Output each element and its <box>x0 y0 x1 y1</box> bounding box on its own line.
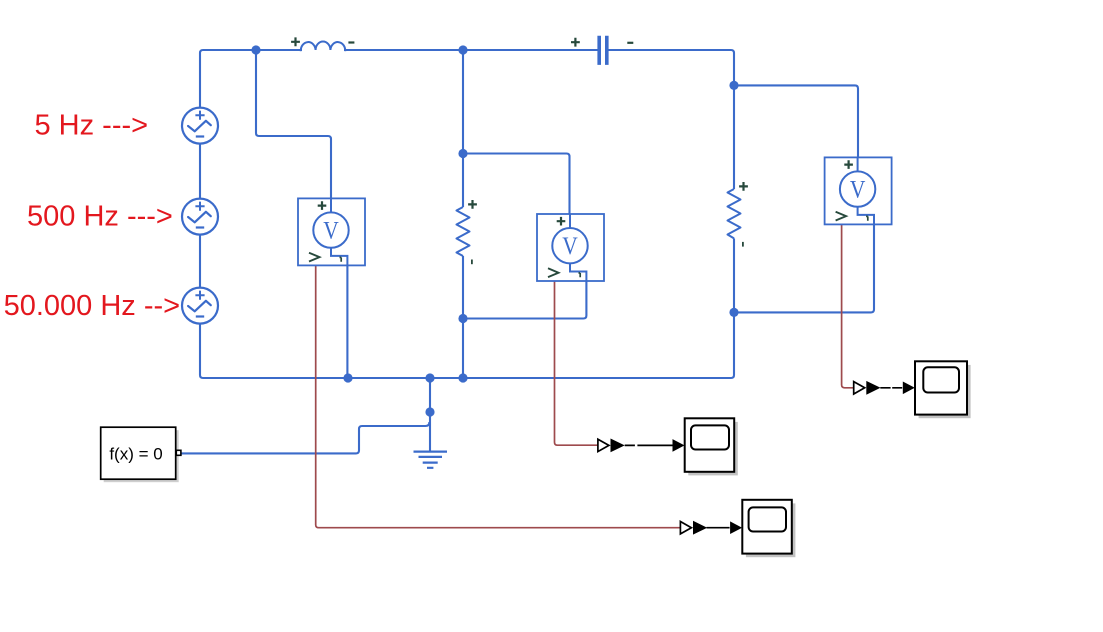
signal line <box>625 444 673 446</box>
voltmeter VM3 <box>825 157 892 224</box>
PS-Simulink converter B <box>680 521 707 535</box>
svg-text:V: V <box>323 217 339 245</box>
wire <box>463 154 570 230</box>
wire <box>734 213 874 312</box>
wire <box>256 50 331 213</box>
node <box>458 314 467 323</box>
wire <box>463 272 586 319</box>
node <box>729 81 738 90</box>
node <box>729 308 738 317</box>
node <box>251 45 260 54</box>
node <box>458 149 467 158</box>
voltmeter VM2 <box>537 214 604 281</box>
inductor L1 <box>291 37 354 51</box>
wire <box>608 50 734 189</box>
node <box>458 373 467 382</box>
capacitor C1 <box>571 36 633 65</box>
svg-text:V: V <box>562 233 578 261</box>
scope Scope3 <box>915 361 971 418</box>
wire <box>316 265 682 527</box>
signal line <box>707 527 730 529</box>
wire <box>181 422 429 453</box>
wire <box>734 85 858 172</box>
node <box>425 373 434 382</box>
wire <box>555 281 598 445</box>
AC voltage source V1 <box>182 108 218 144</box>
svg-text:V: V <box>850 176 866 204</box>
solver configuration block f(x)=0 <box>101 427 181 482</box>
node <box>425 407 434 416</box>
node <box>343 373 352 382</box>
wire <box>429 378 431 451</box>
svg-text:5 Hz --->: 5 Hz ---> <box>35 110 149 142</box>
resistor R1 <box>457 200 477 264</box>
wire <box>462 50 464 207</box>
wire <box>462 256 464 378</box>
AC voltage source V3 <box>182 288 218 324</box>
resistor R2 <box>728 182 748 247</box>
svg-text:50.000 Hz -->: 50.000 Hz --> <box>4 290 181 322</box>
wire <box>842 224 854 387</box>
voltmeter VM1 <box>298 198 365 265</box>
arrowhead <box>673 439 685 452</box>
arrowhead <box>730 521 742 534</box>
arrowhead <box>903 382 915 395</box>
svg-text:500 Hz --->: 500 Hz ---> <box>27 201 173 233</box>
PS-Simulink converter C <box>854 381 881 395</box>
wire <box>346 256 348 378</box>
PS-Simulink converter A <box>598 439 625 453</box>
AC voltage source V2 <box>182 199 218 235</box>
ground <box>414 452 448 468</box>
svg-text:f(x) = 0: f(x) = 0 <box>109 445 162 464</box>
scope Scope1 <box>685 418 738 475</box>
signal line <box>880 387 902 389</box>
scope Scope2 <box>742 500 795 557</box>
wire <box>200 50 734 378</box>
wire <box>344 49 598 51</box>
node <box>458 45 467 54</box>
